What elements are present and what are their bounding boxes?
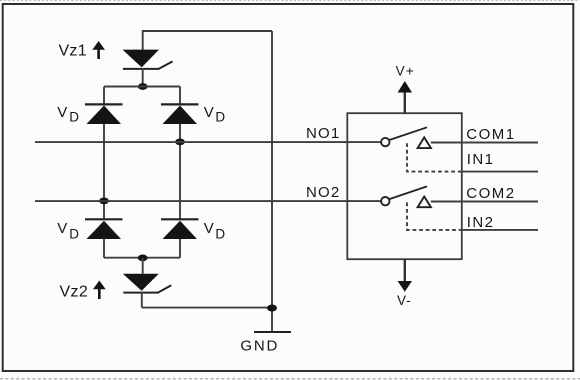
label NO1 [306, 125, 340, 142]
zener diode Vz1 [123, 50, 173, 69]
dashed control line S1 [407, 143, 462, 171]
label Vz2 [60, 283, 88, 300]
junction node ground [267, 305, 277, 312]
switch S2 throw triangle [418, 197, 431, 208]
switch S1 lever [389, 127, 427, 140]
wire to ground horizontal [142, 307, 272, 309]
label VD upper-left [57, 104, 79, 125]
label NO2 [306, 184, 340, 201]
junction node bottom [138, 255, 148, 262]
label IN2 [467, 214, 495, 231]
wire NO2 [35, 200, 381, 202]
zener diode Vz2 [123, 274, 171, 293]
power V+ arrow [398, 81, 412, 113]
svg-text:D: D [69, 227, 79, 242]
wire Vz1 to node [142, 68, 144, 87]
svg-text:V: V [57, 220, 67, 237]
svg-text:V-: V- [397, 293, 412, 308]
switch box U1 [347, 113, 462, 259]
wire left lower [103, 239, 105, 258]
svg-text:V: V [204, 220, 214, 237]
svg-text:IN2: IN2 [467, 214, 495, 231]
label GND [240, 337, 279, 354]
wire zener top vertical [142, 31, 144, 50]
label V- [397, 293, 412, 308]
label VD upper-right [204, 104, 226, 125]
wire top bridge horizontal [104, 86, 180, 88]
arrow Vz1 up [92, 41, 105, 59]
svg-text:COM2: COM2 [466, 185, 515, 202]
switch S1 throw triangle [418, 137, 431, 148]
label V+ [396, 64, 415, 79]
wire left upper [103, 87, 105, 105]
wire Vz2 down [141, 292, 143, 308]
arrow Vz2 up [93, 281, 106, 300]
wire node to Vz2 [142, 258, 144, 274]
svg-text:IN1: IN1 [467, 151, 495, 168]
label VD lower-right [204, 220, 226, 241]
svg-text:V: V [57, 104, 67, 121]
label COM1 [466, 126, 515, 143]
label VD lower-left [57, 220, 79, 241]
wire COM1 [431, 142, 538, 144]
svg-text:V+: V+ [396, 64, 415, 79]
label IN1 [467, 151, 495, 168]
switch S2 lever [389, 186, 427, 199]
wire IN2 [462, 229, 538, 231]
svg-text:Vz1: Vz1 [58, 43, 86, 60]
power V- arrow [398, 259, 412, 292]
switch S2 pole circle [381, 197, 389, 205]
svg-text:V: V [204, 104, 214, 121]
svg-text:NO2: NO2 [306, 184, 340, 201]
wire top horizontal [142, 30, 272, 32]
switch S1 pole circle [381, 138, 389, 146]
junction node top [138, 83, 148, 90]
wire left column middle [103, 124, 105, 219]
svg-text:COM1: COM1 [466, 126, 515, 143]
diode D4 lower-right [161, 219, 199, 239]
ground symbol [254, 331, 291, 333]
diode D1 upper-left [85, 104, 123, 124]
svg-text:NO1: NO1 [306, 125, 340, 142]
junction node NO1-right [175, 139, 185, 146]
svg-text:D: D [69, 110, 79, 125]
svg-text:D: D [215, 227, 225, 242]
wire right vertical to ground [271, 31, 273, 332]
diode D3 lower-left [85, 219, 123, 239]
wire bottom bridge horizontal [104, 257, 180, 259]
label COM2 [466, 185, 515, 202]
label Vz1 [58, 43, 86, 60]
wire NO1 [35, 141, 381, 143]
wire COM2 [431, 201, 538, 203]
svg-text:D: D [215, 110, 225, 125]
junction node NO2-left [99, 198, 109, 205]
wire right lower [179, 239, 181, 258]
wire right column middle [179, 124, 181, 219]
wire IN1 [462, 171, 538, 173]
dashed control line S2 [407, 202, 462, 230]
diode D2 upper-right [161, 104, 199, 124]
svg-text:Vz2: Vz2 [60, 283, 88, 300]
wire right upper [179, 87, 181, 105]
svg-text:GND: GND [240, 337, 279, 354]
